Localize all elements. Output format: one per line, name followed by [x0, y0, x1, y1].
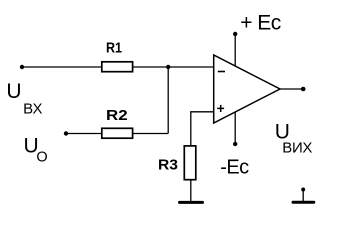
wire — [134, 66, 214, 68]
wire — [134, 133, 169, 135]
wire — [167, 67, 169, 134]
power terminal -Ec — [233, 142, 237, 146]
wire — [191, 112, 214, 145]
op-amp U1 — [214, 55, 280, 123]
resistor R3 — [158, 146, 196, 180]
label Uвих — [275, 120, 313, 156]
wire — [234, 34, 236, 67]
resistor R2 — [102, 107, 133, 138]
label Uвх — [6, 80, 42, 118]
svg-text:R2: R2 — [106, 107, 128, 124]
wire — [66, 133, 101, 135]
wire — [280, 88, 304, 90]
input terminal Uо — [64, 131, 68, 135]
wire — [190, 181, 192, 202]
svg-text:-Ec: -Ec — [220, 156, 249, 178]
wire — [22, 66, 101, 68]
svg-text:О: О — [36, 149, 47, 165]
svg-text:ВИХ: ВИХ — [282, 139, 312, 156]
label Uо — [24, 135, 48, 166]
output terminal Uвих — [301, 87, 306, 92]
svg-text:+ Ec: + Ec — [240, 12, 281, 35]
node: junction of R1, R2 and inverting input — [166, 65, 170, 69]
svg-text:ВХ: ВХ — [23, 101, 42, 118]
svg-text:R3: R3 — [158, 156, 178, 173]
ground (signal common terminal) — [293, 188, 314, 203]
power terminal +Ec — [233, 32, 237, 36]
svg-text:R1: R1 — [106, 39, 122, 56]
ground — [180, 201, 203, 204]
svg-text:U: U — [6, 80, 21, 103]
wire — [234, 112, 236, 144]
input terminal Uвх — [20, 65, 24, 69]
resistor R1 — [102, 39, 133, 71]
